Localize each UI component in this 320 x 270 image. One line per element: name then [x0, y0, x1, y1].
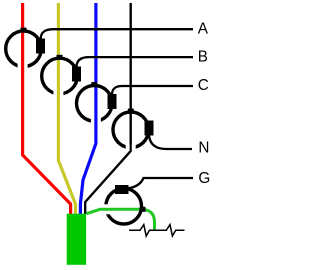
svg-text:G: G — [198, 170, 210, 187]
svg-text:N: N — [198, 140, 209, 157]
svg-text:A: A — [198, 20, 209, 37]
svg-text:C: C — [198, 77, 209, 94]
svg-text:B: B — [198, 49, 208, 66]
